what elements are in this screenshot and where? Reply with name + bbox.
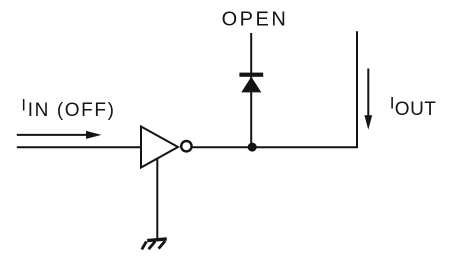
svg-text:OPEN: OPEN bbox=[222, 8, 289, 30]
inverter U1 bbox=[141, 127, 192, 168]
svg-text:I: I bbox=[21, 96, 26, 114]
wire diode branch bbox=[250, 33, 252, 147]
svg-text:OUT: OUT bbox=[395, 99, 437, 120]
wire input to inverter bbox=[17, 146, 140, 148]
label IOUT bbox=[390, 93, 437, 120]
ground bbox=[142, 239, 167, 250]
wire input current arrow bbox=[17, 131, 102, 139]
node junction dot bbox=[248, 143, 257, 152]
output current arrow bbox=[364, 69, 372, 130]
svg-text:IN (OFF): IN (OFF) bbox=[28, 100, 116, 121]
wire inverter output to corner and up bbox=[193, 31, 357, 147]
label IIN (OFF) bbox=[21, 96, 115, 121]
wire inverter to ground bbox=[156, 158, 158, 240]
diode CR1 bbox=[239, 73, 263, 93]
